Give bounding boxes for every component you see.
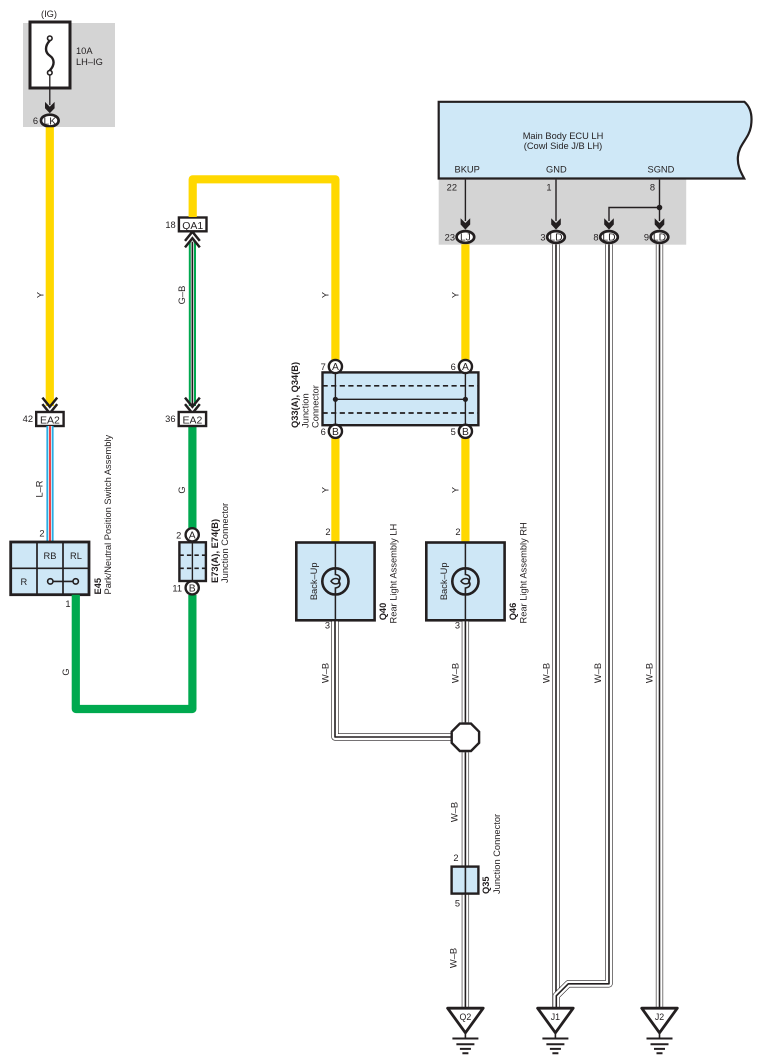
junction dot SGND [657, 205, 663, 211]
svg-text:B: B [332, 427, 339, 438]
svg-text:LK: LK [43, 116, 56, 127]
svg-text:G–B: G–B [177, 286, 187, 305]
svg-text:J1: J1 [551, 1012, 560, 1022]
svg-text:W–B: W–B [449, 948, 459, 968]
svg-text:W–B: W–B [321, 663, 331, 683]
svg-text:J2: J2 [655, 1012, 664, 1022]
svg-text:Y: Y [321, 292, 331, 298]
svg-text:Q40: Q40 [378, 603, 388, 621]
ECU J/B shading [439, 179, 687, 245]
connector arrows into EA2 pin 42 [42, 398, 57, 414]
fuse block (J/B) shading [23, 23, 115, 127]
svg-text:G: G [61, 668, 71, 675]
svg-text:B: B [462, 427, 469, 438]
wire G-B from QA1 to EA2 pin 36 [189, 242, 196, 406]
connector QA1 pin 18 [179, 218, 207, 232]
wire BKUP pin 22 to connector LJ [464, 180, 466, 221]
svg-text:LD: LD [653, 233, 666, 244]
connector arrows out of QA1 (pointing up) [185, 232, 200, 248]
svg-text:7: 7 [321, 362, 326, 372]
svg-text:EA2: EA2 [182, 415, 202, 427]
rear light assembly RH Q46 [426, 543, 504, 621]
svg-text:QA1: QA1 [182, 220, 203, 232]
svg-text:A: A [332, 362, 339, 373]
svg-text:8: 8 [650, 183, 655, 193]
svg-text:GND: GND [546, 165, 567, 175]
svg-text:BKUP: BKUP [455, 165, 480, 175]
pin 6 B circle (left) [329, 425, 342, 438]
svg-text:2: 2 [453, 853, 458, 863]
pin 5 B circle (right) [459, 425, 472, 438]
svg-text:A: A [189, 530, 196, 541]
svg-text:W–B: W–B [593, 663, 603, 683]
wire Y from LK down to EA2 pin 42 [46, 127, 54, 406]
connector EA2 pin 42 [36, 412, 63, 426]
svg-text:Connector: Connector [311, 385, 321, 428]
svg-text:36: 36 [165, 414, 175, 424]
svg-text:(Cowl Side J/B LH): (Cowl Side J/B LH) [524, 141, 603, 151]
svg-text:A: A [462, 362, 469, 373]
svg-text:E45: E45 [93, 578, 103, 595]
junction connector Q33(A), Q34(B) [323, 372, 479, 425]
svg-text:Q33(A), Q34(B): Q33(A), Q34(B) [290, 362, 300, 428]
svg-text:Y: Y [450, 487, 460, 493]
svg-text:9: 9 [644, 233, 649, 243]
pin 6 A circle (right) [459, 360, 472, 373]
svg-text:42: 42 [23, 414, 33, 424]
wire G from E45 pin 1 to E73 pin B [76, 595, 193, 709]
wire W-B from 3 LD to ground J1 [552, 244, 559, 1007]
svg-text:Rear Light Assembly LH: Rear Light Assembly LH [389, 524, 399, 624]
wire W-B from Q40 pin 3 to junction octagon [335, 620, 451, 737]
svg-text:(IG): (IG) [41, 9, 57, 19]
svg-text:2: 2 [39, 529, 44, 539]
svg-text:Park/Neutral Position Switch A: Park/Neutral Position Switch Assembly [103, 434, 113, 594]
svg-text:23: 23 [445, 233, 455, 243]
svg-text:LH–IG: LH–IG [76, 57, 103, 67]
wire W-B from Q46 pin 3 to junction octagon [462, 620, 469, 722]
wire W-B from 8 LD bending into ground J1 [556, 244, 609, 1007]
wire G from EA2 pin 36 to E73 pin A [188, 426, 196, 529]
svg-text:Rear Light Assembly RH: Rear Light Assembly RH [519, 522, 529, 623]
connector 23 LJ [457, 231, 475, 243]
wire Y from QA1 up over to Q33 pin A [193, 179, 336, 360]
svg-text:Y: Y [35, 292, 45, 298]
junction connector E73(A), E74(B) [186, 528, 199, 541]
rear light assembly LH Q40 [296, 543, 374, 621]
ground J1 [538, 1008, 574, 1053]
wire L-R from EA2 to E45 pin 2 [46, 426, 53, 542]
svg-text:18: 18 [165, 220, 175, 230]
bulb Q46 [452, 568, 478, 594]
wire Y from LJ down to Q34 pin A [461, 244, 469, 360]
svg-text:11: 11 [172, 584, 182, 594]
svg-text:3: 3 [540, 233, 545, 243]
connector EA2 pin 36 [179, 412, 206, 426]
ground J2 [642, 1008, 678, 1053]
svg-text:EA2: EA2 [40, 415, 60, 427]
wire Y from Q34 pin B to Q46 pin 2 [461, 438, 469, 543]
svg-text:Junction: Junction [301, 393, 311, 428]
wire W-B from octagon down through Q35 to ground Q2 [462, 752, 469, 1007]
ground Q2 [448, 1008, 484, 1053]
svg-text:R: R [20, 577, 27, 587]
svg-text:3: 3 [325, 621, 330, 631]
svg-text:Main Body ECU LH: Main Body ECU LH [523, 131, 604, 141]
svg-text:Q46: Q46 [508, 603, 518, 621]
pin 7 A circle [329, 360, 342, 373]
svg-text:22: 22 [447, 183, 457, 193]
Main Body ECU LH box [439, 102, 752, 179]
svg-text:E73(A), E74(B): E73(A), E74(B) [210, 519, 220, 583]
svg-text:6: 6 [321, 427, 326, 437]
svg-text:RL: RL [70, 551, 82, 561]
svg-text:RB: RB [44, 551, 57, 561]
svg-text:W–B: W–B [644, 663, 654, 683]
svg-text:Back–Up: Back–Up [439, 562, 449, 600]
svg-text:1: 1 [546, 183, 551, 193]
wire SGND pin 8, splits to LD 8 and LD 9 [609, 180, 660, 221]
connector 9 LD [651, 231, 669, 243]
svg-text:2: 2 [455, 527, 460, 537]
connector 8 LD [600, 231, 618, 243]
svg-text:LJ: LJ [460, 233, 471, 244]
svg-text:2: 2 [325, 527, 330, 537]
svg-text:6: 6 [33, 116, 38, 126]
svg-text:W–B: W–B [541, 663, 551, 683]
connector 6 LK [41, 115, 59, 127]
wire Y from Q33 pin B to Q40 pin 2 [331, 438, 339, 543]
svg-text:Junction Connector: Junction Connector [492, 814, 502, 894]
svg-text:B: B [189, 583, 196, 594]
svg-text:3: 3 [455, 621, 460, 631]
wire W-B from 9 LD to ground J2 [656, 244, 663, 1007]
svg-text:5: 5 [451, 427, 456, 437]
svg-text:W–B: W–B [451, 663, 461, 683]
svg-text:Y: Y [321, 487, 331, 493]
svg-text:Q2: Q2 [460, 1012, 472, 1022]
svg-text:LD: LD [549, 233, 562, 244]
wire GND pin 1 to connector LD [555, 180, 557, 221]
svg-text:5: 5 [455, 899, 460, 909]
bulb Q40 [322, 568, 348, 594]
svg-text:1: 1 [65, 599, 70, 609]
svg-text:L–R: L–R [35, 480, 45, 497]
svg-text:W–B: W–B [449, 802, 459, 822]
svg-text:10A: 10A [76, 46, 93, 56]
svg-text:2: 2 [176, 531, 181, 541]
junction connector Q35 [452, 867, 479, 894]
svg-text:8: 8 [593, 233, 598, 243]
svg-text:G: G [177, 486, 187, 493]
wire fuse to connector LK [49, 75, 51, 105]
svg-text:Q35: Q35 [481, 876, 491, 894]
svg-text:Back–Up: Back–Up [309, 562, 319, 600]
connector 3 LD [547, 231, 565, 243]
svg-text:Junction Connector: Junction Connector [220, 503, 230, 583]
svg-text:LD: LD [602, 233, 615, 244]
svg-text:SGND: SGND [648, 165, 675, 175]
junction octagon [452, 724, 479, 751]
svg-text:6: 6 [451, 362, 456, 372]
switch E45 Park/Neutral Position Switch Assembly [11, 542, 89, 595]
svg-text:Y: Y [450, 292, 460, 298]
